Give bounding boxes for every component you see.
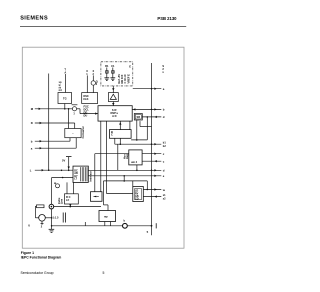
junction dot on y177.5 [62, 177, 64, 179]
ground in box A col2 [112, 73, 114, 78]
junction dot below box H [120, 143, 122, 145]
svg-text:SR: SR [136, 115, 140, 119]
svg-text:~: ~ [72, 132, 74, 135]
svg-text:Interface: Interface [89, 170, 92, 181]
svg-text:x: x [162, 71, 164, 74]
wire box H bottom stub 1 [114, 138, 116, 144]
wire into box E left with arrow [80, 113, 98, 115]
wire box H bottom stub 2 [119, 138, 121, 144]
junction dot bottom right [151, 225, 153, 227]
pin row y161.2 [142, 160, 161, 162]
box C tone generator [58, 93, 72, 104]
svg-text:LF: LF [66, 198, 70, 202]
wire box K bottom stub 2 [110, 222, 112, 226]
wire box L bottom stub 1 [66, 182, 68, 193]
wire vertical x117.8 [117, 144, 119, 170]
pin row b y109.4 from box E [132, 108, 161, 110]
resistor R line [37, 205, 45, 208]
wire vertical x103.5 down [103, 181, 105, 205]
svg-text:Figure 1: Figure 1 [21, 251, 34, 255]
box J line driver [133, 187, 144, 202]
svg-text:c: c [163, 160, 165, 164]
meter circle on bottom rail [123, 223, 128, 228]
hatch lines in box L [80, 167, 82, 181]
box K regulator [99, 211, 116, 222]
svg-text:U: U [28, 223, 30, 227]
junction dot y108.8 vertical to box G [68, 108, 70, 110]
svg-text:PSB 2130: PSB 2130 [157, 16, 177, 21]
box H control [110, 130, 132, 139]
svg-text:CLK: CLK [83, 97, 88, 101]
wire left of resistor L-path to AC source [35, 205, 36, 207]
arrow on pin row y123 [40, 122, 42, 124]
wire pin row y108.8 [35, 108, 73, 110]
header rule [20, 25, 186, 27]
svg-text:VREF E: VREF E [126, 74, 130, 84]
box E central DSP [98, 106, 132, 121]
box N arrow block [91, 192, 103, 202]
svg-text:TG: TG [63, 97, 67, 101]
svg-text:IEPC Functional Diagram: IEPC Functional Diagram [21, 256, 62, 260]
svg-text:c: c [163, 152, 165, 156]
wire ref2 [112, 68, 114, 71]
svg-text:x2: x2 [163, 197, 166, 200]
short stub crossing bottom rail [84, 222, 86, 226]
bottom rail wire right segment [127, 225, 151, 227]
wire pin row y170.2 [35, 169, 73, 171]
svg-text:LT: LT [74, 178, 77, 181]
wire box M bottom stub with arrow [69, 204, 71, 207]
svg-text:5: 5 [103, 271, 105, 275]
junction dot boxF-row [147, 116, 149, 118]
wire box L bottom stub 2 [73, 182, 75, 193]
svg-text:R1: R1 [105, 64, 109, 68]
AC source circle [39, 215, 46, 222]
wire box L to box I path [94, 154, 96, 192]
junction dot y139.9 [136, 139, 138, 141]
wire right of connector circle [54, 206, 101, 208]
transformer winding bars [62, 213, 64, 223]
wire box E bottom stub x100.3 long [100, 121, 102, 192]
wire box A to amp B with arrow [112, 86, 114, 93]
box D oscillator [82, 93, 98, 104]
svg-text:5V: 5V [62, 159, 65, 163]
pin row y170.3 long wire from box L [88, 169, 161, 171]
svg-text:2: 2 [41, 225, 43, 229]
svg-text:L: L [30, 168, 32, 172]
junction dot 5V on wire y170.3 [68, 170, 70, 172]
svg-text:1:1.5: 1:1.5 [53, 216, 59, 220]
svg-text:5: 5 [147, 230, 149, 234]
pin row a y88.7 from box A [133, 88, 162, 90]
wire vertical x124.2 [123, 176, 125, 181]
bottom rail wire left segment [52, 225, 123, 227]
svg-text:D: D [31, 121, 33, 125]
AC source tail [41, 221, 43, 225]
svg-text:e: e [163, 174, 165, 178]
pin row y153.7 [142, 153, 161, 155]
supply symbol 5V [66, 156, 72, 158]
junction dot x61.5 on wire y170.3 [61, 170, 63, 172]
wire current source to corner [77, 108, 80, 110]
wire into box J left [107, 193, 133, 195]
wire box C bottom stub [64, 104, 66, 109]
box M filter [65, 194, 79, 204]
short vertical boxF-row down to boxH side wire [146, 117, 148, 140]
svg-text:3: 3 [73, 112, 75, 116]
wire row y180.9 [104, 180, 148, 182]
svg-text:CD: CD [135, 198, 139, 201]
svg-text:Line: Line [61, 198, 64, 204]
crystal circle symbol [91, 81, 95, 85]
wire pin row y123 [35, 122, 75, 124]
svg-text:Aug: Aug [126, 154, 129, 159]
svg-text:b2: b2 [163, 145, 167, 148]
svg-text:E: E [129, 65, 131, 69]
short vertical x147.3 y180.9 to box J row [146, 181, 148, 190]
pin row y189.5 [143, 189, 161, 191]
wire box E bottom stub to box H with up arrow [119, 121, 121, 130]
wire from TA label down to box C [65, 74, 67, 93]
wire box G bottom stub 2 [75, 138, 77, 149]
svg-text:A D: A D [112, 114, 116, 118]
ground in box A col1 [106, 73, 108, 78]
ground symbol bottom left [49, 228, 55, 230]
svg-text:w: w [162, 188, 166, 192]
wire box N to box K l-path [107, 205, 109, 211]
junction dot box J row [147, 189, 149, 191]
svg-text:DU: DU [84, 113, 88, 117]
wire vertical x136.8 box F bottom down [136, 120, 138, 140]
wire amp B to box E with arrow [112, 102, 114, 106]
wire XTAL2 upper [92, 75, 94, 80]
wire vertical from y108.8 to box G [68, 109, 70, 129]
figure frame [22, 47, 184, 248]
svg-text:ai: ai [54, 181, 56, 185]
junction dot x51.6 y217.8 [51, 217, 53, 219]
arrow on pin row y108.8 [39, 108, 41, 110]
wire corner down into box G [74, 123, 76, 129]
connector circle on 2wire node [49, 204, 54, 209]
wire box I bottom stub [136, 165, 138, 170]
wire row y177.5 from left vertical [52, 177, 73, 179]
box I codec [129, 150, 142, 165]
wire vertical x132.1 into box J [132, 181, 134, 187]
dash-dot external box A [101, 62, 133, 86]
junction dot bus y170.2 [48, 169, 50, 171]
svg-text:C: C [111, 133, 113, 137]
wire horizontal below box H to right bus [115, 143, 162, 145]
box G line interface [65, 129, 81, 138]
wire box K bottom stub 1 [104, 222, 106, 226]
wire AC source to vertical [45, 217, 51, 219]
svg-text:a: a [31, 146, 33, 150]
pin row y196.6 two line label [143, 196, 161, 198]
svg-text:C1: C1 [111, 64, 115, 68]
box F register [134, 114, 142, 121]
wire box E bottom stub into box H right [129, 121, 131, 130]
pin row TST y144.2 two line label [151, 143, 153, 145]
wire pin row y148.2 [35, 147, 76, 149]
capacitor C1 in box A [112, 71, 115, 74]
svg-text:d: d [163, 169, 165, 173]
left bus vertical [48, 74, 50, 171]
wire corner down to box E feed [79, 109, 81, 114]
svg-text:b: b [31, 139, 33, 143]
junction dot box M stub [70, 206, 72, 208]
svg-text:b: b [163, 108, 165, 112]
wire ref1 [106, 68, 108, 71]
box L hybrid [73, 166, 88, 182]
svg-text:um 4: um 4 [131, 160, 138, 164]
svg-text:mt: mt [59, 89, 62, 92]
junction dot x51.6 y225.8 [51, 225, 53, 227]
left lower vertical through connector [51, 178, 53, 205]
wire box G bottom stub 1 [69, 138, 71, 142]
wire corner from box E stub to bus y126.5 [139, 121, 141, 126]
svg-text:SIEMENS: SIEMENS [20, 16, 48, 22]
svg-text:d: d [163, 115, 165, 119]
svg-text:a: a [163, 87, 165, 91]
op-amp B reference amplifier [108, 93, 118, 102]
current source symbol with overbar [72, 104, 78, 106]
svg-text:b: b [124, 219, 126, 223]
terminal tick bottom right [155, 223, 157, 228]
pin row SR y116.9 from box F [142, 116, 161, 118]
svg-text:Semiconductor Group: Semiconductor Group [21, 271, 54, 275]
junction dot box I stub [136, 170, 138, 172]
diode D1 in box A [106, 71, 109, 74]
bell circle symbol [56, 184, 60, 188]
wire XTAL2 lower [92, 85, 94, 92]
right bus vertical [151, 63, 153, 235]
junction dot y180.9 [123, 180, 125, 182]
junction dot box C stub [64, 108, 66, 110]
svg-text:Converter: Converter [81, 126, 85, 138]
junction dot y175.8 [123, 175, 125, 177]
svg-text:2: 2 [96, 83, 98, 86]
wire XTAL1 into box D [86, 75, 88, 92]
wire box H side y139.9 [131, 139, 147, 141]
wire box E bottom stub x107 long [106, 121, 108, 194]
pin row y175.8 long wire from box L [88, 175, 161, 177]
svg-text:M: M [31, 107, 34, 111]
svg-text:my: my [104, 215, 108, 218]
svg-text:A: A [64, 70, 66, 74]
wire pin row y141.2 [35, 140, 70, 142]
